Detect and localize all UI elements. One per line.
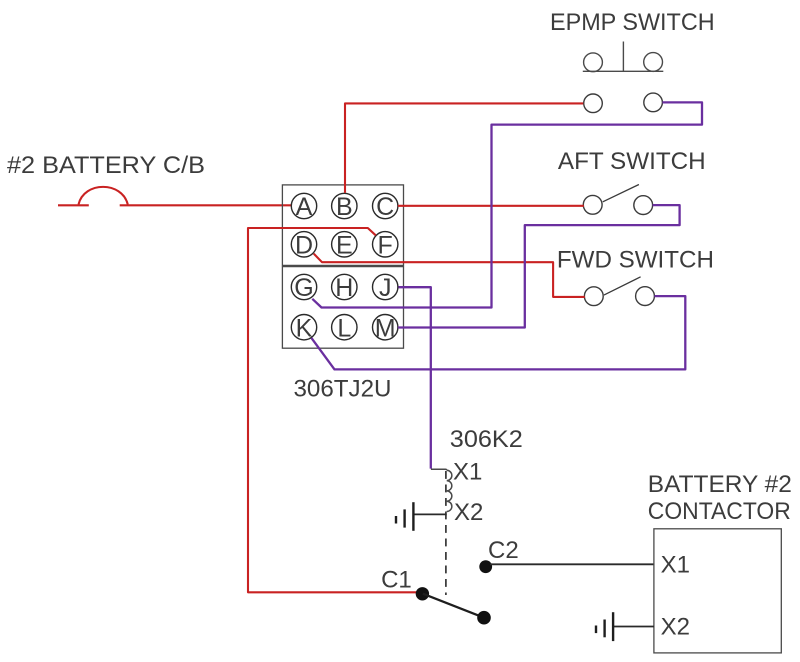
relay K1 moving blade bbox=[423, 594, 484, 618]
contact C2 dot bbox=[479, 560, 492, 573]
pin G bbox=[291, 274, 316, 299]
pin K bbox=[291, 315, 316, 340]
svg-text:#2 BATTERY C/B: #2 BATTERY C/B bbox=[7, 152, 205, 179]
wire pin C to AFT switch (red) bbox=[398, 205, 584, 207]
wire FWD switch to pin K (purple) bbox=[312, 296, 686, 369]
pin B bbox=[332, 193, 357, 218]
svg-text:C2: C2 bbox=[488, 537, 519, 564]
svg-text:AFT SWITCH: AFT SWITCH bbox=[558, 148, 706, 175]
svg-text:G: G bbox=[294, 274, 313, 302]
contactor X2 lead bbox=[613, 626, 654, 628]
svg-text:BATTERY #2: BATTERY #2 bbox=[648, 471, 792, 498]
switch S1 EPMP body circle left bbox=[584, 53, 603, 72]
switch S1 EPMP contact left bbox=[584, 94, 603, 113]
svg-text:X1: X1 bbox=[453, 459, 482, 486]
wire pin F to contact C1 (red) bbox=[248, 228, 421, 592]
ground at relay X2 bbox=[396, 502, 413, 531]
connector 306TJ2U lower shell bbox=[282, 267, 403, 349]
contactor box bbox=[654, 529, 781, 653]
switch S2 AFT contact left bbox=[583, 195, 602, 214]
svg-text:CONTACTOR: CONTACTOR bbox=[648, 498, 791, 525]
svg-text:X2: X2 bbox=[454, 499, 483, 526]
svg-text:X2: X2 bbox=[661, 613, 690, 640]
pin D bbox=[291, 232, 316, 257]
svg-text:J: J bbox=[379, 274, 392, 302]
pin L bbox=[332, 315, 357, 340]
svg-text:M: M bbox=[375, 314, 396, 342]
relay K1 coil lead X2 bbox=[413, 513, 446, 515]
svg-text:L: L bbox=[337, 314, 351, 342]
svg-text:A: A bbox=[296, 193, 313, 221]
pin M bbox=[373, 315, 398, 340]
switch S1 EPMP body baseline bbox=[583, 70, 664, 72]
switch S3 FWD contact left bbox=[584, 287, 603, 306]
relay K1 coil lead X1 bbox=[431, 469, 447, 470]
wire pin B to EPMP switch (red) bbox=[345, 103, 583, 192]
svg-text:H: H bbox=[335, 274, 353, 302]
svg-text:D: D bbox=[295, 231, 313, 259]
circuit breaker CB1 arc bbox=[79, 187, 128, 205]
svg-text:FWD SWITCH: FWD SWITCH bbox=[557, 247, 714, 274]
relay K1 blade end dot bbox=[477, 611, 491, 625]
switch S1 EPMP body circle right bbox=[644, 53, 663, 72]
svg-text:306TJ2U: 306TJ2U bbox=[294, 375, 392, 402]
switch S1 EPMP contact right bbox=[644, 93, 663, 112]
svg-text:C1: C1 bbox=[381, 566, 412, 593]
svg-text:EPMP SWITCH: EPMP SWITCH bbox=[550, 9, 715, 36]
svg-text:F: F bbox=[378, 231, 393, 259]
wire pin D to FWD switch (red) bbox=[314, 254, 585, 297]
wire C2 to contactor X1 (black) bbox=[490, 563, 654, 565]
circuit breaker CB1 left lead bbox=[58, 204, 89, 206]
switch S1 EPMP toggle lever bbox=[622, 42, 624, 72]
pin F bbox=[373, 232, 398, 257]
pin A bbox=[291, 193, 316, 218]
svg-text:306K2: 306K2 bbox=[450, 426, 523, 453]
svg-text:E: E bbox=[336, 231, 353, 259]
pin E bbox=[332, 232, 357, 257]
wire pin J to relay coil X1 (purple) bbox=[398, 287, 430, 468]
relay K1 coil bbox=[447, 470, 452, 511]
relay K1 armature dashed link bbox=[445, 471, 447, 595]
wire AFT switch to pin M (purple) bbox=[398, 205, 680, 327]
pin H bbox=[332, 274, 357, 299]
switch S2 AFT blade bbox=[603, 185, 639, 202]
svg-text:K: K bbox=[296, 314, 313, 342]
pin J bbox=[373, 274, 398, 299]
switch S2 AFT contact right bbox=[634, 196, 653, 215]
wire CB1 to pin A (red) bbox=[120, 204, 292, 206]
svg-text:B: B bbox=[336, 193, 353, 221]
connector 306TJ2U upper shell bbox=[282, 185, 403, 266]
ground at contactor X2 bbox=[596, 612, 613, 641]
svg-text:C: C bbox=[376, 193, 394, 221]
pin C bbox=[373, 193, 398, 218]
wire EPMP switch to pin G (purple) bbox=[312, 102, 702, 307]
contact C1 dot bbox=[416, 587, 429, 600]
switch S3 FWD blade bbox=[604, 277, 641, 295]
switch S3 FWD contact right bbox=[636, 287, 655, 306]
svg-text:X1: X1 bbox=[661, 551, 690, 578]
